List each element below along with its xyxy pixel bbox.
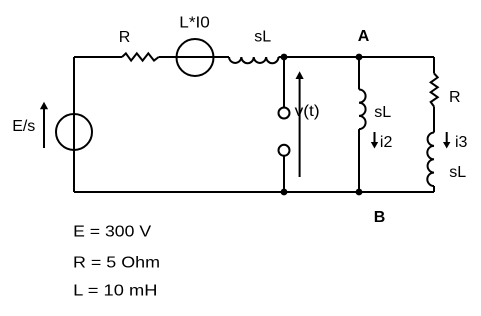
arrow v(t) head <box>296 71 304 79</box>
node dot top inductor junction <box>281 54 288 61</box>
inductor sL (top) <box>229 57 279 63</box>
svg-text:sL: sL <box>449 164 466 181</box>
wire bottom <box>74 191 434 193</box>
arrow i3 shaft <box>446 132 448 143</box>
svg-text:E = 300 V: E = 300 V <box>73 224 151 241</box>
wire port top <box>283 57 285 108</box>
terminal circle lower <box>279 145 290 156</box>
resistor R (top) <box>122 53 159 60</box>
svg-text:R = 5 Ohm: R = 5 Ohm <box>73 254 160 271</box>
svg-text:i2: i2 <box>380 134 393 151</box>
wire port bottom <box>283 156 285 192</box>
voltage source E/s <box>56 114 92 150</box>
svg-text:B: B <box>374 209 386 226</box>
svg-text:sL: sL <box>254 28 271 45</box>
wire right branch top <box>433 57 435 73</box>
wire resistor to source <box>159 56 229 58</box>
node A dot <box>356 54 363 61</box>
node dot bottom middle <box>356 189 363 196</box>
inductor sL (right) <box>427 133 434 187</box>
resistor R (right) <box>431 73 438 106</box>
arrow i2 head <box>371 142 378 149</box>
wire middle coil to bottom <box>358 129 360 192</box>
wire left <box>73 57 75 192</box>
inductor sL (middle) <box>359 90 366 130</box>
current source L*I0 <box>177 39 214 76</box>
arrow E/s head <box>40 102 48 110</box>
node dot bottom port <box>281 189 288 196</box>
wire node A to right branch <box>359 56 434 58</box>
wire resistor to coil right <box>433 107 435 133</box>
svg-text:A: A <box>358 28 370 45</box>
svg-text:L*I0: L*I0 <box>179 14 210 31</box>
svg-text:R: R <box>449 89 461 106</box>
arrow v(t) shaft <box>299 79 301 177</box>
svg-text:v(t): v(t) <box>295 103 320 120</box>
svg-text:R: R <box>119 29 131 46</box>
svg-text:L = 10 mH: L = 10 mH <box>73 283 157 300</box>
terminal circle upper <box>279 108 290 119</box>
svg-text:sL: sL <box>374 104 391 121</box>
arrow i2 shaft <box>374 132 376 143</box>
svg-text:E/s: E/s <box>12 118 35 135</box>
arrow E/s shaft <box>43 109 45 148</box>
wire top-left horizontal <box>74 56 122 58</box>
wire inductor to node A <box>279 56 360 58</box>
wire node A down <box>358 57 360 90</box>
arrow i3 head <box>443 142 450 149</box>
wire coil to bottom right <box>433 186 435 192</box>
svg-text:i3: i3 <box>455 134 468 151</box>
